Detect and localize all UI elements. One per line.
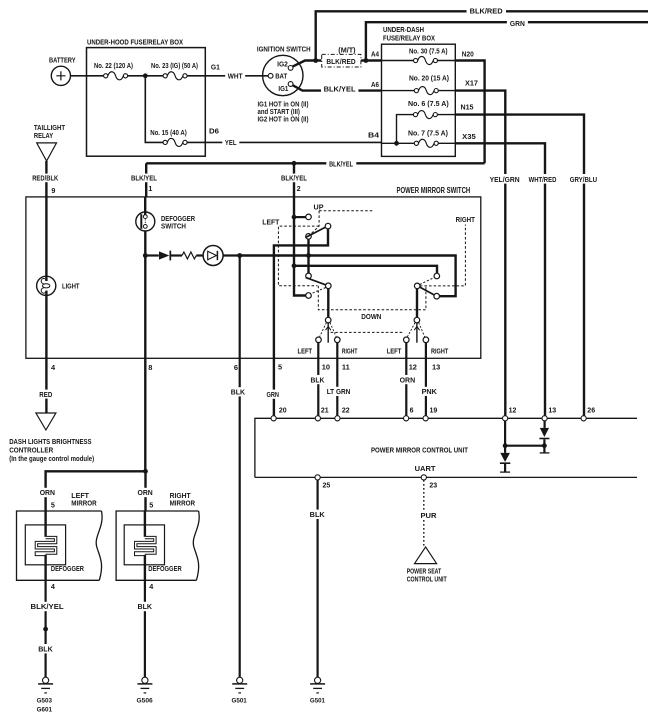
svg-text:X35: X35	[462, 132, 476, 141]
wire switch pin 12	[405, 343, 407, 416]
svg-text:No. 23 (IG) (50 A): No. 23 (IG) (50 A)	[151, 63, 198, 70]
wire pin 8 drop	[144, 256, 146, 359]
fuse No. 30 (7.5 A)	[414, 58, 418, 62]
terminal upper-left contact a	[306, 214, 312, 220]
svg-text:G501: G501	[232, 697, 247, 704]
node pin 6 junction	[237, 253, 242, 258]
wire H1 common rail	[240, 256, 456, 297]
svg-text:FUSE/RELAY BOX: FUSE/RELAY BOX	[383, 33, 435, 42]
svg-text:23: 23	[429, 483, 437, 490]
svg-text:(M/T): (M/T)	[338, 48, 355, 55]
svg-text:9: 9	[51, 186, 55, 195]
svg-text:6: 6	[410, 408, 414, 415]
wire right pivot to rocker	[416, 289, 418, 318]
svg-text:CONTROL UNIT: CONTROL UNIT	[407, 576, 448, 583]
label LT GRN pin11	[325, 387, 353, 396]
svg-text:No. 30 (7.5 A): No. 30 (7.5 A)	[409, 48, 448, 55]
svg-text:26: 26	[587, 408, 595, 415]
svg-text:LT GRN: LT GRN	[327, 389, 351, 396]
terminal lower-left contact bottom	[306, 293, 312, 299]
svg-text:6: 6	[234, 363, 238, 372]
power mirror switch	[26, 197, 481, 358]
svg-text:No. 20 (15 A): No. 20 (15 A)	[409, 76, 449, 83]
wire defogger switch to diode	[144, 231, 146, 256]
svg-text:No. 22 (120 A): No. 22 (120 A)	[94, 63, 133, 70]
svg-text:GRN: GRN	[510, 21, 525, 28]
right rocker dashed throws	[407, 323, 424, 337]
diode D3 (pin 12 internal)	[504, 421, 506, 453]
terminal 13	[542, 416, 547, 421]
node mirror branch	[143, 469, 148, 474]
wire IG1 BLK/YEL to A6	[293, 85, 382, 90]
wire to fuse No. 15	[145, 76, 205, 143]
light	[37, 276, 56, 295]
wire RED/BLK to switch pin 9	[45, 161, 47, 197]
node splice	[43, 627, 48, 632]
terminal 6	[404, 416, 409, 421]
wire switch pin 2 main vertical	[294, 197, 306, 296]
svg-text:G1: G1	[211, 63, 220, 72]
svg-text:YEL/GRN: YEL/GRN	[490, 177, 520, 184]
linkage DOWN (dashed)	[318, 286, 426, 310]
svg-text:POWER MIRROR CONTROL UNIT: POWER MIRROR CONTROL UNIT	[371, 445, 468, 454]
svg-text:11: 11	[342, 362, 350, 371]
wire pivot link	[307, 239, 309, 273]
wire battery feed row	[87, 75, 206, 77]
power seat control unit	[415, 547, 437, 564]
terminal right rocker RIGHT contact	[423, 337, 429, 343]
svg-text:IG1: IG1	[278, 84, 288, 93]
svg-text:IG2: IG2	[277, 60, 288, 69]
wire UP stub	[294, 216, 306, 218]
terminal left rocker RIGHT contact	[335, 337, 341, 343]
svg-text:No. 15 (40 A): No. 15 (40 A)	[150, 130, 187, 137]
wire diode bridge	[505, 445, 544, 447]
svg-text:UNDER-HOOD FUSE/RELAY BOX: UNDER-HOOD FUSE/RELAY BOX	[87, 38, 183, 47]
terminal upper-left contact b	[325, 223, 331, 229]
svg-text:(In the gauge control module): (In the gauge control module)	[9, 454, 95, 463]
terminal left rocker LEFT contact	[316, 337, 322, 343]
fuse No. 20 (15 A)	[414, 89, 418, 93]
svg-text:WHT: WHT	[228, 74, 243, 81]
terminal right rocker common	[414, 317, 420, 323]
wire ORN right mirror	[144, 471, 146, 511]
svg-text:RED: RED	[39, 390, 52, 399]
svg-text:ORN: ORN	[138, 490, 153, 497]
power mirror control unit	[255, 418, 637, 477]
svg-text:20: 20	[279, 408, 287, 415]
svg-text:G601: G601	[37, 707, 53, 714]
fuse No. 7 (7.5 A)	[414, 141, 418, 145]
svg-text:ORN: ORN	[40, 490, 55, 497]
svg-text:POWER MIRROR SWITCH: POWER MIRROR SWITCH	[397, 186, 471, 195]
diode D1	[145, 254, 159, 256]
svg-text:IG2 HOT in ON (II): IG2 HOT in ON (II)	[258, 117, 309, 124]
svg-text:G506: G506	[137, 697, 153, 704]
svg-text:BLK/RED: BLK/RED	[326, 59, 355, 66]
terminal IG2	[288, 66, 293, 71]
terminal 22	[335, 416, 340, 421]
terminal 12	[503, 416, 508, 421]
ignition switch	[263, 55, 303, 95]
switch arm lower-left	[306, 277, 326, 285]
wire switch pin 11	[336, 343, 338, 416]
terminal upper-left pivot	[306, 234, 312, 240]
terminal lower-left pivot	[326, 283, 332, 289]
label WHT/RED	[527, 174, 559, 184]
svg-text:25: 25	[323, 483, 331, 490]
fuse No. 22 (120 A)	[104, 74, 108, 78]
right defogger element	[124, 525, 164, 565]
svg-text:BLK: BLK	[138, 602, 153, 611]
node H2 junction	[292, 263, 297, 268]
svg-text:LEFT: LEFT	[387, 348, 402, 355]
label BLK pin10	[309, 375, 327, 384]
dash lights brightness controller	[36, 413, 56, 430]
svg-text:DOWN: DOWN	[361, 312, 381, 321]
label GRN pin5	[265, 390, 282, 399]
wire X35 output WHT/RED	[455, 143, 545, 415]
svg-text:DASH LIGHTS BRIGHTNESS: DASH LIGHTS BRIGHTNESS	[9, 437, 91, 446]
svg-text:DEFOGGER: DEFOGGER	[51, 566, 84, 573]
svg-text:BLK: BLK	[38, 644, 53, 653]
wire pin 23 PUR (dotted)	[423, 480, 425, 547]
terminal lower-left contact top	[306, 273, 312, 279]
svg-text:No. 7 (7.5 A): No. 7 (7.5 A)	[408, 130, 448, 137]
svg-text:G503: G503	[37, 697, 53, 704]
svg-text:RELAY: RELAY	[34, 131, 53, 140]
terminal left rocker common	[325, 317, 331, 323]
right mirror box	[116, 511, 199, 580]
wire LED output	[223, 254, 240, 256]
diode D2 (pin 13 internal)	[543, 421, 545, 428]
wire battery to under-hood box	[71, 75, 87, 77]
svg-text:G501: G501	[310, 697, 325, 704]
wire N15 output GRY/BLU	[437, 114, 455, 116]
connector (M/T) BLK/RED	[322, 54, 361, 67]
svg-text:BLK: BLK	[310, 510, 326, 519]
svg-text:RIGHT: RIGHT	[342, 348, 358, 355]
svg-text:GRN: GRN	[267, 392, 280, 399]
svg-text:POWER SEAT: POWER SEAT	[407, 568, 442, 575]
svg-text:BAT: BAT	[275, 72, 288, 81]
svg-text:BLK: BLK	[231, 390, 245, 397]
label YEL/GRN	[488, 174, 522, 184]
ground G503 G601	[43, 677, 49, 683]
wire pin 25 BLK to ground	[317, 480, 319, 677]
svg-text:DEFOGGER: DEFOGGER	[148, 566, 181, 573]
terminal right rocker LEFT contact	[404, 337, 410, 343]
svg-text:WHT/RED: WHT/RED	[529, 177, 557, 184]
wire left mirror ground	[44, 580, 46, 677]
switch arm right solid	[420, 287, 434, 295]
node BLK/YEL junction	[292, 161, 297, 166]
wire fuse No.6 feed	[397, 115, 414, 144]
svg-text:IGNITION SWITCH: IGNITION SWITCH	[257, 45, 311, 54]
svg-text:LIGHT: LIGHT	[62, 281, 80, 290]
svg-text:GRY/BLU: GRY/BLU	[570, 177, 597, 184]
terminal BAT	[268, 73, 273, 78]
svg-text:ORN: ORN	[400, 377, 416, 384]
svg-text:BATTERY: BATTERY	[49, 55, 76, 64]
terminal upper-right contact (H2)	[434, 273, 440, 279]
svg-text:BLK: BLK	[311, 377, 325, 384]
svg-text:13: 13	[432, 362, 440, 371]
under-dash fuse/relay box	[382, 44, 456, 156]
terminal 20	[271, 416, 276, 421]
under-hood fuse/relay box	[87, 48, 206, 157]
wire GRN bus (top)	[366, 22, 648, 60]
left rocker dashed throws	[320, 323, 337, 337]
wire pin 8 ORN to mirrors	[46, 358, 146, 511]
svg-text:UP: UP	[314, 202, 324, 211]
svg-text:19: 19	[430, 408, 438, 415]
wire right mirror ground	[144, 580, 146, 677]
wire BLK/YEL distribution	[146, 162, 484, 164]
left defogger element	[25, 525, 65, 565]
terminal IG1	[288, 82, 293, 87]
wire lower-left pivot to rocker	[327, 289, 329, 318]
svg-text:SWITCH: SWITCH	[161, 222, 186, 231]
svg-text:BLK/YEL: BLK/YEL	[324, 86, 357, 93]
fuse No. 15 (40 A)	[163, 140, 167, 144]
wire switch pin 13	[425, 343, 427, 416]
wire to switch pin 2	[293, 163, 295, 197]
terminal 21	[315, 416, 320, 421]
terminal 26	[581, 416, 586, 421]
wire B4 row inside box	[382, 142, 456, 144]
svg-text:RIGHT: RIGHT	[431, 348, 449, 355]
switch arm lower-left rest (dashed)	[311, 288, 326, 294]
wire contact b to pin 5 GRN	[274, 229, 328, 416]
svg-text:4: 4	[149, 582, 153, 591]
node B4 junction	[394, 141, 399, 146]
svg-text:YEL: YEL	[225, 140, 237, 147]
svg-text:13: 13	[548, 408, 556, 415]
svg-text:BLK/YEL: BLK/YEL	[281, 174, 308, 183]
svg-text:5: 5	[51, 500, 55, 509]
node UP stub junction	[292, 215, 297, 220]
svg-text:No. 6 (7.5 A): No. 6 (7.5 A)	[408, 101, 449, 108]
node BLK/RED junction	[313, 58, 318, 63]
switch arm upper-left	[305, 227, 326, 238]
label ORN pin12	[398, 375, 418, 384]
svg-text:12: 12	[509, 408, 517, 415]
wire to switch pin 1	[145, 163, 147, 197]
svg-text:BLK/YEL: BLK/YEL	[329, 161, 354, 168]
svg-text:5: 5	[278, 362, 282, 371]
node GRN junction	[364, 58, 369, 63]
svg-text:B4: B4	[368, 130, 379, 139]
label GRY/BLU	[568, 174, 599, 184]
svg-text:RED/BLK: RED/BLK	[32, 174, 59, 183]
svg-text:PUR: PUR	[421, 511, 438, 520]
wire A6 row inside box	[382, 90, 456, 92]
node diode junction 13	[542, 443, 547, 448]
ground G506	[142, 677, 148, 683]
terminal lower-right contact (H1)	[434, 293, 440, 299]
switch arm right (dashed)	[420, 277, 435, 284]
svg-text:BLK/RED: BLK/RED	[470, 9, 503, 16]
wire light to pin 4	[45, 291, 47, 359]
terminal 25	[315, 475, 320, 480]
label PNK pin13	[420, 387, 439, 396]
svg-text:8: 8	[148, 363, 152, 372]
left rocker arm with arrowhead	[327, 323, 329, 343]
terminal right pivot	[414, 283, 420, 289]
LED (illumination)	[196, 254, 203, 256]
fuse No. 6 (7.5 A)	[413, 113, 417, 117]
svg-text:1: 1	[148, 184, 152, 193]
svg-text:4: 4	[51, 582, 55, 591]
terminal 23	[421, 475, 426, 480]
fuse No. 23 (IG) (50 A)	[163, 74, 167, 78]
wire pin 9 to light	[45, 197, 47, 281]
svg-text:A4: A4	[371, 50, 379, 59]
svg-text:2: 2	[297, 184, 301, 193]
svg-text:21: 21	[321, 408, 329, 415]
wire pin 4 RED	[45, 358, 47, 413]
svg-text:N15: N15	[461, 103, 474, 112]
svg-text:PNK: PNK	[422, 389, 437, 396]
terminal 19	[423, 416, 428, 421]
wire X17 output YEL/GRN	[455, 91, 505, 416]
wire H2 rail from pin 2 feed	[294, 266, 437, 273]
svg-text:and START (III): and START (III)	[258, 109, 300, 116]
node diode junction	[143, 253, 148, 258]
svg-text:D6: D6	[209, 127, 219, 136]
node H1 junction	[306, 253, 311, 258]
left mirror box	[17, 511, 102, 580]
svg-text:MIRROR: MIRROR	[170, 499, 196, 508]
svg-text:BLK/YEL: BLK/YEL	[31, 602, 65, 611]
ground G501 (control unit)	[315, 677, 321, 683]
wire IG2 to A4	[293, 61, 382, 67]
svg-text:MIRROR: MIRROR	[71, 499, 97, 508]
wire pin 1 to defogger switch	[144, 197, 146, 215]
svg-text:LEFT: LEFT	[262, 218, 280, 227]
svg-text:22: 22	[342, 408, 350, 415]
wire pin 6 drop to ground	[239, 256, 241, 678]
svg-text:IG1 HOT in ON (II): IG1 HOT in ON (II)	[258, 101, 309, 108]
wire G1 WHT to ignition BAT	[205, 75, 268, 77]
svg-text:X17: X17	[465, 79, 478, 88]
svg-text:LEFT: LEFT	[298, 348, 313, 355]
svg-text:A6: A6	[371, 80, 379, 89]
node fuse junction	[143, 73, 148, 78]
label BLK pin6	[229, 387, 247, 396]
svg-text:BLK/YEL: BLK/YEL	[131, 174, 158, 183]
defogger switch	[136, 212, 155, 231]
svg-text:RIGHT: RIGHT	[456, 215, 476, 224]
wire switch pin 10	[317, 343, 319, 416]
wire N20 output	[455, 61, 484, 164]
svg-text:12: 12	[409, 362, 417, 371]
right rocker arm with arrowhead	[416, 323, 418, 343]
ground G501 (switch)	[237, 677, 243, 683]
resistor	[171, 254, 182, 256]
wire A4 row inside box	[382, 60, 456, 62]
svg-text:N20: N20	[462, 50, 474, 59]
battery	[51, 66, 70, 85]
svg-text:10: 10	[322, 362, 330, 371]
svg-text:UART: UART	[415, 466, 437, 473]
linkage rockers (dashed)	[331, 331, 405, 333]
wire BLK/RED bus (top)	[316, 11, 648, 60]
svg-text:5: 5	[149, 500, 153, 509]
wire D6 YEL to B4	[205, 141, 381, 143]
